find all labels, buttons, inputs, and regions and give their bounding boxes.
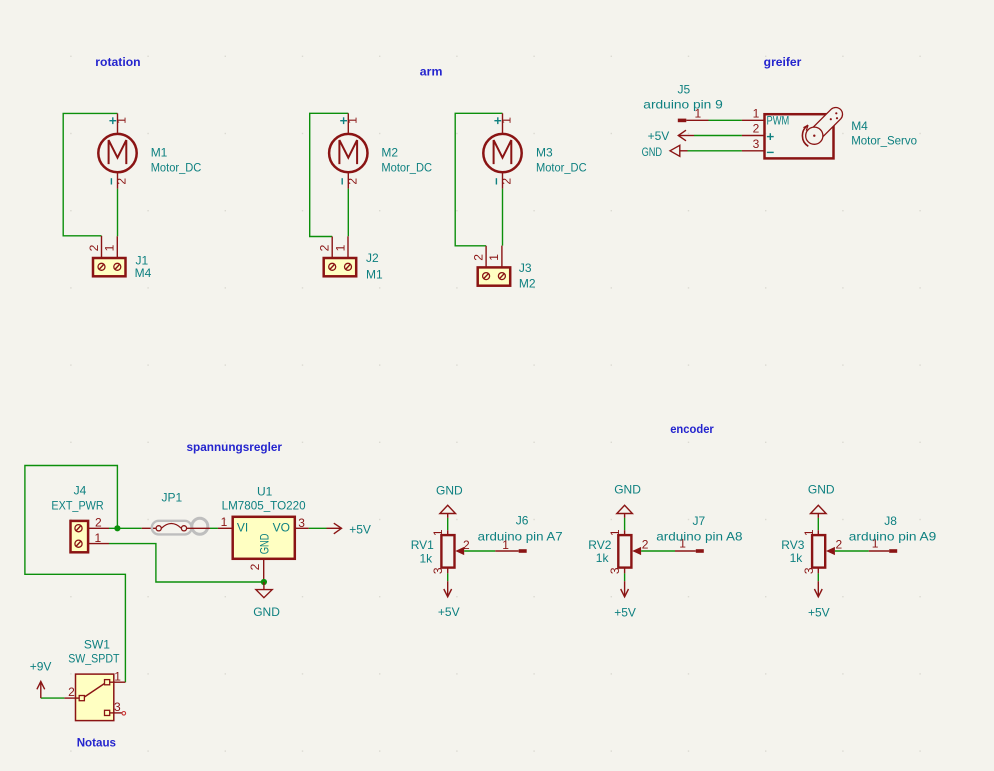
- svg-text:2: 2: [318, 244, 332, 251]
- pin name + of M3: [494, 117, 501, 124]
- svg-text:arduino pin 9: arduino pin 9: [643, 98, 723, 112]
- wire M2 top loop: [310, 113, 349, 236]
- svg-text:VI: VI: [237, 521, 248, 535]
- power GND greifer: [670, 145, 688, 156]
- power +9V: [37, 682, 45, 699]
- svg-text:J5: J5: [678, 83, 691, 97]
- connector J4: [71, 521, 110, 552]
- svg-text:RV1: RV1: [411, 538, 434, 552]
- svg-text:arduino pin A7: arduino pin A7: [478, 529, 563, 543]
- svg-text:GND: GND: [436, 484, 463, 498]
- svg-text:1: 1: [500, 117, 514, 124]
- svg-text:arduino pin A9: arduino pin A9: [849, 529, 937, 543]
- svg-text:M4: M4: [135, 266, 152, 280]
- svg-text:1: 1: [114, 669, 121, 683]
- svg-text:1: 1: [487, 254, 501, 261]
- svg-text:2: 2: [248, 563, 262, 570]
- servo M4: [742, 107, 843, 158]
- svg-text:2: 2: [95, 515, 102, 529]
- connector J1: [93, 236, 126, 276]
- wire J5 to servo PWM: [709, 119, 742, 121]
- svg-text:spannungsregler: spannungsregler: [187, 440, 283, 454]
- svg-text:+5V: +5V: [614, 606, 636, 620]
- pin of J5: [686, 119, 708, 121]
- svg-text:Motor_DC: Motor_DC: [151, 161, 202, 175]
- connector J2: [324, 236, 357, 276]
- svg-text:2: 2: [345, 178, 359, 185]
- svg-text:2: 2: [68, 685, 75, 699]
- svg-text:1: 1: [115, 117, 129, 124]
- svg-text:3: 3: [802, 567, 816, 574]
- svg-text:2: 2: [471, 254, 485, 261]
- svg-text:VO: VO: [273, 521, 290, 535]
- svg-text:2: 2: [463, 538, 470, 552]
- svg-text:M1: M1: [151, 145, 168, 159]
- svg-text:1: 1: [95, 531, 102, 545]
- wire M2 bottom to J2: [347, 189, 349, 237]
- svg-text:GND: GND: [614, 483, 641, 497]
- svg-text:J3: J3: [519, 261, 532, 275]
- svg-text:2: 2: [115, 178, 129, 185]
- wire J4 pin2 to JP1: [109, 527, 142, 529]
- junction GND under U1: [261, 579, 267, 585]
- pin name + of M2: [340, 117, 347, 124]
- svg-text:J6: J6: [516, 514, 529, 528]
- motor M2: [329, 113, 367, 188]
- wire M1 top loop: [63, 113, 117, 235]
- potentiometer RV2: [617, 505, 704, 597]
- svg-text:Motor_DC: Motor_DC: [536, 161, 587, 175]
- svg-text:1: 1: [333, 244, 347, 251]
- svg-text:J4: J4: [74, 484, 87, 498]
- potentiometer RV3: [811, 505, 898, 597]
- svg-text:M2: M2: [519, 276, 536, 290]
- svg-text:1k: 1k: [790, 551, 804, 565]
- svg-text:rotation: rotation: [95, 55, 140, 69]
- svg-text:1: 1: [802, 529, 816, 536]
- svg-text:SW_SPDT: SW_SPDT: [68, 652, 120, 666]
- wire SW1 pin2 to +9V: [41, 697, 65, 699]
- svg-text:+5V: +5V: [808, 606, 830, 620]
- svg-text:Notaus: Notaus: [77, 735, 117, 749]
- svg-text:GND: GND: [642, 145, 663, 159]
- svg-text:+5V: +5V: [648, 129, 670, 143]
- svg-text:2: 2: [500, 178, 514, 185]
- wire JP1 to U1: [210, 527, 218, 529]
- svg-text:1k: 1k: [420, 552, 434, 566]
- svg-text:JP1: JP1: [162, 491, 183, 505]
- svg-text:RV3: RV3: [781, 538, 804, 552]
- svg-text:1: 1: [431, 529, 445, 536]
- svg-text:U1: U1: [257, 485, 273, 499]
- wire M3 bottom to J3: [502, 189, 504, 246]
- pin name - of M4: [767, 151, 774, 153]
- wire J4 pin1 to GND rail: [109, 544, 264, 582]
- potentiometer RV1: [440, 505, 527, 597]
- svg-text:3: 3: [298, 516, 305, 530]
- svg-text:GND: GND: [808, 483, 835, 497]
- svg-text:+5V: +5V: [349, 523, 371, 537]
- svg-text:3: 3: [431, 567, 445, 574]
- wire GND to servo: [688, 150, 742, 152]
- svg-text:1: 1: [103, 244, 117, 251]
- svg-text:M4: M4: [851, 119, 868, 133]
- svg-text:1: 1: [608, 529, 622, 536]
- svg-text:M3: M3: [536, 145, 553, 159]
- connector J3: [478, 246, 511, 286]
- wire M3 top loop: [455, 113, 502, 246]
- motor M1: [98, 113, 136, 188]
- connector J5 stub: [678, 119, 687, 123]
- svg-text:J7: J7: [693, 514, 706, 528]
- svg-text:greifer: greifer: [764, 55, 802, 69]
- svg-text:2: 2: [87, 244, 101, 251]
- svg-text:2: 2: [753, 122, 760, 136]
- wire M1 bottom to J1: [117, 189, 119, 237]
- svg-text:1: 1: [221, 515, 228, 529]
- svg-text:SW1: SW1: [84, 638, 110, 652]
- junction at J4 pin2: [114, 525, 120, 531]
- svg-text:RV2: RV2: [588, 538, 611, 552]
- power GND under U1: [256, 582, 272, 598]
- svg-text:Motor_Servo: Motor_Servo: [851, 134, 917, 148]
- wire junction up and around to SW1: [25, 466, 126, 683]
- svg-text:EXT_PWR: EXT_PWR: [51, 499, 104, 513]
- svg-text:3: 3: [753, 137, 760, 151]
- svg-text:PWM: PWM: [767, 114, 790, 128]
- wire U1 out to +5V: [309, 527, 327, 529]
- svg-text:3: 3: [114, 700, 121, 714]
- svg-text:J2: J2: [366, 251, 379, 265]
- pin name - of M3: [495, 178, 497, 184]
- power +5V out: [327, 523, 342, 534]
- pin name + of M4: [767, 133, 774, 140]
- pin name - of M1: [110, 178, 112, 184]
- svg-text:1: 1: [345, 117, 359, 124]
- switch SW1: [64, 674, 125, 721]
- svg-text:encoder: encoder: [670, 422, 714, 436]
- svg-text:GND: GND: [253, 605, 280, 619]
- svg-text:1: 1: [753, 106, 760, 120]
- svg-text:1k: 1k: [596, 551, 610, 565]
- pin name - of M2: [341, 178, 343, 184]
- motor M3: [483, 113, 521, 188]
- jumper JP1: [142, 518, 210, 534]
- wire +5V to servo: [694, 135, 742, 137]
- svg-text:M1: M1: [366, 267, 383, 281]
- svg-text:GND: GND: [258, 533, 272, 554]
- svg-text:J8: J8: [884, 514, 897, 528]
- svg-text:LM7805_TO220: LM7805_TO220: [222, 499, 306, 513]
- grid dots: [70, 56, 921, 752]
- power +5V greifer: [678, 130, 694, 141]
- pin name + of M1: [109, 117, 116, 124]
- svg-text:Motor_DC: Motor_DC: [381, 161, 432, 175]
- svg-text:arduino pin A8: arduino pin A8: [656, 529, 743, 543]
- svg-text:+5V: +5V: [438, 605, 460, 619]
- svg-text:+9V: +9V: [30, 660, 52, 674]
- svg-text:arm: arm: [420, 65, 443, 79]
- svg-text:2: 2: [836, 538, 843, 552]
- regulator U1: [218, 517, 309, 582]
- svg-text:M2: M2: [381, 145, 398, 159]
- svg-text:3: 3: [608, 567, 622, 574]
- svg-text:2: 2: [642, 538, 649, 552]
